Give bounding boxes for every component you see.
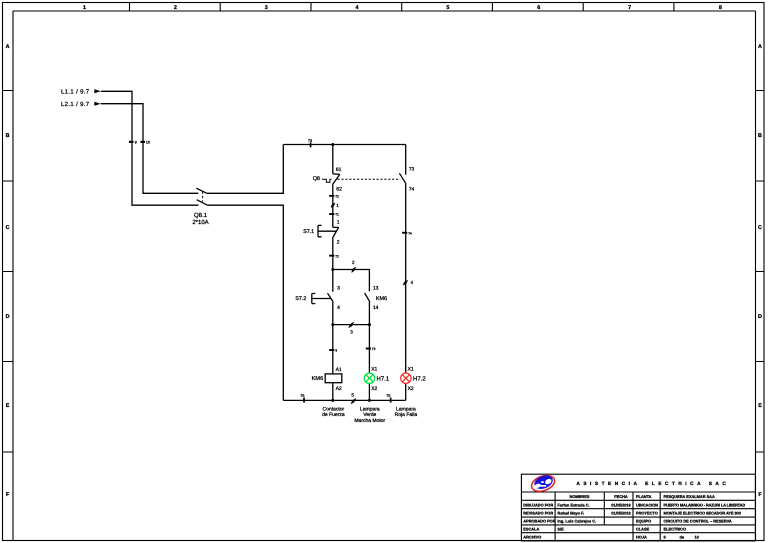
Q8 manual link symbol	[322, 179, 332, 182]
svg-text:de Fuerza: de Fuerza	[322, 412, 345, 418]
svg-text:MONTAJE ELECTRICO SECADOR AYE: MONTAJE ELECTRICO SECADOR AYE 800	[664, 511, 741, 516]
svg-text:73: 73	[308, 139, 312, 143]
svg-text:10: 10	[146, 141, 150, 145]
coil KM6	[325, 374, 342, 383]
label Q8.1 2*10A	[192, 212, 208, 226]
label 74	[409, 186, 415, 192]
node junction rail lamp	[368, 399, 371, 402]
svg-text:ASISTENCIA ELECTRICA SAC: ASISTENCIA ELECTRICA SAC	[576, 481, 729, 487]
lamp H7.2 (red)	[401, 373, 411, 383]
svg-text:B: B	[758, 133, 762, 139]
svg-text:Rafael Mayo F.: Rafael Mayo F.	[557, 511, 584, 516]
svg-text:73: 73	[409, 166, 415, 172]
svg-text:13: 13	[373, 286, 379, 292]
svg-text:6: 6	[537, 5, 540, 11]
label 61	[336, 167, 342, 173]
wire main branch	[332, 185, 334, 228]
top rail	[283, 144, 405, 146]
pushbutton S7.1 (NC)	[318, 225, 339, 237]
source arrow L1.1	[61, 89, 101, 96]
svg-text:2: 2	[352, 260, 355, 265]
pushbutton S7.2 (NO)	[312, 293, 333, 303]
svg-text:8: 8	[719, 5, 722, 11]
svg-text:D: D	[758, 314, 762, 320]
svg-text:74: 74	[409, 186, 415, 192]
svg-text:4: 4	[411, 280, 414, 285]
svg-text:REVISADO POR: REVISADO POR	[523, 511, 553, 516]
svg-text:X2: X2	[408, 386, 414, 392]
label S7.2	[295, 296, 306, 302]
svg-text:X2: X2	[371, 386, 377, 392]
wire-number marker 73 on top rail	[308, 139, 312, 148]
wire S7.2 bottom to coil	[332, 302, 334, 374]
svg-text:62: 62	[336, 187, 342, 193]
node junction branch 2	[331, 268, 334, 271]
svg-text:L1.1 / 9.7: L1.1 / 9.7	[61, 89, 90, 96]
svg-text:Marcha Motor: Marcha Motor	[354, 418, 385, 424]
svg-text:01/05/2019: 01/05/2019	[611, 502, 631, 507]
svg-text:DIBUJADO POR: DIBUJADO POR	[523, 502, 553, 507]
svg-text:ESCALA: ESCALA	[523, 527, 539, 532]
label 1 terminal S7.1	[337, 219, 340, 225]
wire tick marker c	[329, 254, 339, 258]
wire tick marker b	[329, 213, 339, 217]
label 13	[373, 286, 379, 292]
svg-text:5: 5	[351, 392, 354, 397]
lamp H7.1 (green)	[364, 373, 374, 383]
svg-text:3: 3	[337, 286, 340, 292]
caption contactor	[322, 406, 345, 418]
svg-text:Ing. Luis Cabrejos C.: Ing. Luis Cabrejos C.	[557, 519, 596, 524]
svg-text:72: 72	[335, 254, 339, 258]
svg-text:4: 4	[337, 305, 340, 311]
contact Q8 61/62 (NC aux)	[332, 174, 340, 185]
wire-number marker 10 on L2	[140, 141, 150, 145]
wire tick marker g + label 4	[403, 280, 413, 285]
svg-text:A: A	[6, 44, 10, 50]
label A1	[336, 367, 342, 373]
label X1 H7.1	[371, 366, 377, 372]
svg-text:2: 2	[337, 239, 340, 245]
svg-text:ARCHIVO: ARCHIVO	[523, 535, 541, 540]
label 62	[336, 187, 342, 193]
svg-text:EQUIPO: EQUIPO	[636, 519, 651, 524]
svg-text:E: E	[758, 403, 762, 409]
svg-text:14: 14	[373, 305, 379, 311]
label H7.2	[413, 376, 426, 383]
label 73	[409, 166, 415, 172]
svg-text:Farfan Estrada C.: Farfan Estrada C.	[557, 502, 589, 507]
svg-text:D: D	[6, 314, 10, 320]
svg-text:X1: X1	[408, 366, 414, 372]
svg-text:10: 10	[695, 535, 699, 540]
svg-text:73: 73	[372, 347, 376, 351]
svg-text:NOMBRES: NOMBRES	[570, 494, 590, 499]
wire right branch lower	[405, 184, 407, 401]
svg-text:3: 3	[350, 330, 353, 335]
mechanical link dashed Q8 to 73/74	[338, 178, 401, 180]
label KM6 contact	[376, 296, 387, 302]
node junction rail coil	[331, 399, 334, 402]
wire right branch	[405, 145, 407, 175]
svg-text:S/E: S/E	[557, 527, 564, 532]
breaker Q8.1 mechanical link	[202, 191, 204, 201]
wire branch to KM6 contact	[333, 270, 370, 292]
wire number slash 2	[352, 260, 356, 273]
svg-text:PROYECTO: PROYECTO	[636, 511, 658, 516]
node junction 3 left	[331, 323, 334, 326]
svg-text:61: 61	[336, 167, 342, 173]
svg-text:71: 71	[335, 213, 339, 217]
svg-text:PLANTA: PLANTA	[636, 494, 652, 499]
label 3 terminal S7.2	[337, 286, 340, 292]
wire tick marker f	[402, 231, 412, 235]
wire tick marker e	[366, 347, 376, 351]
wire branch 3 horizontal	[333, 324, 370, 326]
svg-text:X1: X1	[371, 366, 377, 372]
svg-text:UBICACION: UBICACION	[636, 502, 658, 507]
wire number slash 1	[331, 203, 339, 208]
breaker Q8.1 pole 2	[197, 200, 207, 205]
wire main branch upper	[332, 145, 334, 174]
svg-text:5: 5	[446, 5, 449, 11]
wire lamp H7.1 branch	[368, 325, 370, 401]
svg-text:Q8.1: Q8.1	[194, 212, 208, 219]
svg-text:75: 75	[386, 394, 390, 398]
wire breaker to left vertical	[207, 145, 284, 401]
svg-text:9: 9	[135, 141, 137, 145]
wire L1	[101, 91, 198, 205]
wire tick marker a	[329, 194, 339, 198]
svg-text:1: 1	[337, 219, 340, 225]
svg-text:PESQUERA EXALMAR SAA: PESQUERA EXALMAR SAA	[664, 494, 715, 499]
wire KM6 contact bottom	[368, 302, 370, 325]
svg-text:L2.1 / 9.7: L2.1 / 9.7	[61, 101, 90, 108]
svg-text:S7.2: S7.2	[295, 296, 306, 302]
wire number slash 3	[349, 322, 354, 334]
breaker Q8.1 pole 1	[196, 188, 206, 193]
label KM6 coil	[312, 376, 324, 382]
svg-text:1: 1	[336, 203, 339, 208]
svg-text:A2: A2	[336, 386, 342, 392]
svg-text:KM6: KM6	[376, 296, 387, 302]
caption lampara roja	[395, 406, 418, 418]
wire tick marker d	[329, 349, 337, 353]
svg-text:4: 4	[356, 5, 359, 11]
label S7.1	[303, 229, 314, 235]
caption lampara verde	[354, 406, 385, 424]
svg-text:75: 75	[300, 394, 304, 398]
svg-text:S7.1: S7.1	[303, 229, 314, 235]
svg-text:Q8: Q8	[313, 176, 320, 182]
label 2 terminal S7.1	[337, 239, 340, 245]
svg-text:ELECTRICO: ELECTRICO	[664, 527, 686, 532]
label X1 H7.2	[408, 366, 414, 372]
svg-text:PUERTO MALABRIGO - RAZURI LA L: PUERTO MALABRIGO - RAZURI LA LIBERTAD	[664, 502, 746, 507]
wire main branch below S7.1	[332, 237, 334, 270]
svg-text:3: 3	[335, 349, 337, 353]
svg-text:C: C	[758, 225, 762, 231]
contact KM6 13/14 (NO)	[365, 293, 370, 302]
svg-text:2*10A: 2*10A	[192, 219, 208, 226]
wire-number marker 75 left	[300, 394, 305, 403]
node junction 3 right	[368, 323, 371, 326]
label X2 H7.1	[371, 386, 377, 392]
source arrow L2.1	[61, 101, 101, 108]
svg-text:E: E	[6, 403, 10, 409]
svg-text:KM6: KM6	[312, 376, 324, 382]
label 14	[373, 305, 379, 311]
svg-text:H7.2: H7.2	[413, 376, 426, 383]
wire L2	[101, 104, 198, 194]
label 4 terminal S7.2	[337, 305, 340, 311]
contact Q8 73/74 (NO aux)	[399, 173, 406, 184]
label Q8	[313, 176, 320, 182]
svg-text:FECHA: FECHA	[614, 494, 628, 499]
wire S7.2 top	[332, 270, 334, 292]
label H7.1	[377, 376, 390, 383]
svg-text:APROBADO POR: APROBADO POR	[523, 519, 555, 524]
svg-text:A1: A1	[336, 367, 342, 373]
wire-number marker 9 on L1	[129, 141, 137, 145]
svg-text:CLASE: CLASE	[636, 527, 650, 532]
svg-text:A: A	[758, 44, 762, 50]
svg-text:3: 3	[265, 5, 268, 11]
svg-text:1: 1	[83, 5, 86, 11]
svg-text:Roja Falla: Roja Falla	[395, 412, 418, 418]
svg-text:01/05/2019: 01/05/2019	[611, 511, 631, 516]
svg-text:2: 2	[174, 5, 177, 11]
wire number slash 5	[351, 392, 356, 403]
svg-text:HOJA: HOJA	[636, 535, 647, 540]
svg-text:C: C	[6, 225, 10, 231]
node junction top rail	[331, 143, 334, 146]
label A2	[336, 386, 342, 392]
svg-text:72: 72	[335, 194, 339, 198]
svg-text:7: 7	[628, 5, 631, 11]
wire coil to rail	[332, 383, 334, 401]
svg-text:B: B	[6, 133, 10, 139]
label X2 H7.2	[408, 386, 414, 392]
svg-text:74: 74	[408, 231, 412, 235]
svg-text:CIRCUITO DE CONTROL – RESERVA: CIRCUITO DE CONTROL – RESERVA	[664, 519, 732, 524]
wire-number marker 75 right	[386, 394, 391, 403]
bottom rail	[283, 399, 405, 401]
svg-text:H7.1: H7.1	[377, 376, 390, 383]
